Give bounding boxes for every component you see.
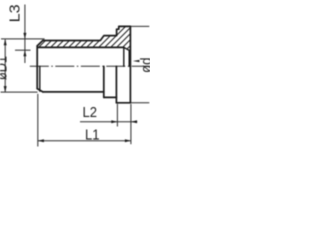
arrow L2 left-pointing [131,120,137,123]
body bottom outline [43,91,104,93]
ext line flange top right [131,25,149,27]
body top outline [43,26,131,40]
svg-text:øD1: øD1 [0,56,10,80]
arrow oD1 down [4,86,7,92]
arrow L1 right [125,139,131,142]
shoulder (bottom half) [103,66,105,97]
extension lines [1,26,150,146]
ext line flange bottom right [131,102,149,104]
bottom weld chamfer [37,89,43,92]
svg-text:L1: L1 [85,127,100,144]
arrow L1 left [38,139,44,142]
cone chamfer [124,47,129,50]
svg-text:L3: L3 [6,4,23,22]
bore line [38,46,124,48]
dimension L1 line [38,140,131,142]
arrow L3 down [23,33,26,39]
top weld chamfer [37,41,43,46]
arrow oD1 up [4,39,7,45]
chamfer edge (bottom half) [39,66,41,91]
ext line oD1 bottom [1,91,38,93]
flange right face [129,26,131,102]
arrow right-side dash [133,60,140,62]
flange bottom [116,102,130,104]
flange left face (bottom half) [115,66,117,103]
dimension L3 line [24,5,26,64]
ext line L2 left [116,104,118,127]
arrow L3 up [23,50,26,56]
counterbore face [123,47,125,66]
ext line L3 lower [15,49,31,51]
arrow L2 right-pointing [111,120,117,123]
cone edge [128,50,130,66]
svg-text:ød: ød [138,58,150,74]
hatching (section) [1,26,168,67]
svg-text:L2: L2 [83,104,98,121]
centerline [30,65,150,67]
dimension L2 line [80,121,137,123]
ext line top (oD1 / L3 upper) [1,38,45,40]
left face [36,46,38,89]
part outline: weld-fitting body, top half section [37,26,130,102]
dimension oD1 line [4,40,6,92]
ext line L1 left [37,94,39,147]
ext line L1/L2 right [130,104,132,144]
step bottom [104,96,117,98]
